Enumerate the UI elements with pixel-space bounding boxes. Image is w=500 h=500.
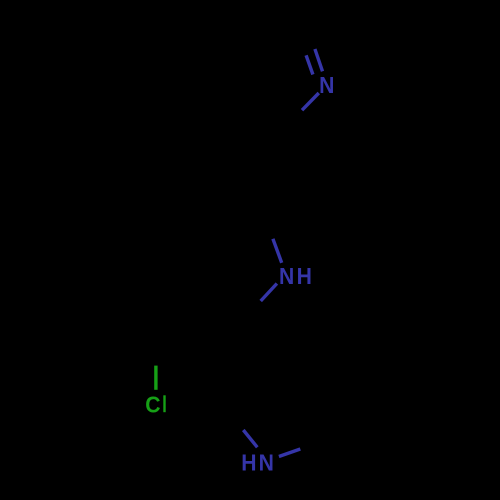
svg-text:N: N [319,72,334,98]
svg-text:C: C [145,392,160,418]
svg-text:N: N [259,450,274,476]
svg-text:N: N [279,263,294,289]
svg-text:H: H [241,450,256,476]
svg-text:H: H [297,263,312,289]
